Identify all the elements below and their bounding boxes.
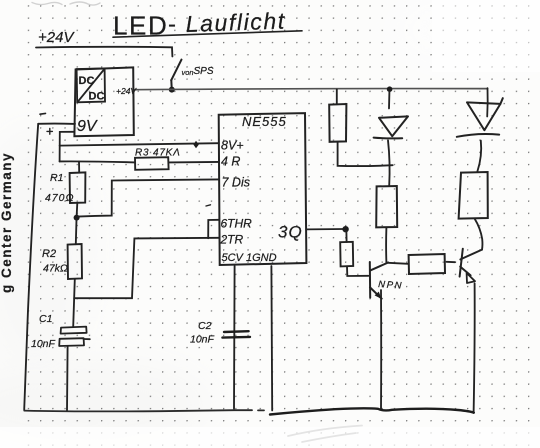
- label R2: [42, 248, 56, 260]
- ground rail wire (left half): [24, 410, 264, 411]
- resistor R2 body: [68, 244, 82, 279]
- LED D1 cathode bar: [374, 137, 403, 140]
- label DC (top): [79, 75, 95, 87]
- svg-text:C2: C2: [198, 320, 212, 332]
- wire: tap to pins 2/6 (THR/TR net): [74, 238, 219, 298]
- label 10nF (C1): [31, 338, 56, 350]
- wire: pin 3 Q output: [306, 228, 344, 230]
- pin 5 / pin 1 label 5CV 1GND: [222, 252, 277, 264]
- wire: junction B to R2: [75, 219, 78, 244]
- svg-text:470Ω: 470Ω: [45, 192, 75, 204]
- wire: 9V rail to pin 8: [60, 143, 219, 145]
- svg-text:6THR: 6THR: [221, 217, 253, 231]
- svg-text:DC: DC: [89, 91, 105, 103]
- svg-text:4 R: 4 R: [221, 155, 240, 169]
- svg-text:10nF: 10nF: [31, 338, 56, 350]
- wire: D1 to R7: [388, 140, 390, 186]
- svg-text:von: von: [182, 68, 194, 77]
- wire: left bus to DC/DC input: [38, 123, 75, 125]
- wire: pin 1 GND down to ground rail: [270, 266, 273, 410]
- minus terminal mark: [40, 112, 46, 115]
- svg-text:+24V: +24V: [38, 29, 75, 46]
- LED D2 triangle: [467, 98, 503, 130]
- svg-text:R1: R1: [50, 172, 63, 184]
- LED D1 triangle: [379, 116, 408, 136]
- label NE555: [242, 114, 287, 129]
- svg-text:47kΩ: 47kΩ: [43, 263, 68, 275]
- wire: rail right corner drop to LED D2: [486, 88, 488, 116]
- capacitor C1 top plate: [61, 327, 87, 334]
- wire: R1 to junction B: [76, 203, 79, 215]
- junction diamond on pin-8 rail: [193, 141, 198, 148]
- svg-text:g Center Germany: g Center Germany: [0, 152, 14, 293]
- wire: node D down to LED D1: [388, 92, 390, 109]
- Q1 emitter arrowhead: [374, 291, 382, 299]
- label DC (bottom): [89, 91, 105, 103]
- wire: left bus down page: [24, 124, 38, 410]
- svg-text:7 Dis: 7 Dis: [222, 176, 250, 190]
- wire: junction B to pin 7 (Dis): [78, 179, 219, 216]
- wire: C1 to ground rail: [66, 346, 69, 411]
- label C2: [198, 320, 212, 332]
- LED D2 cathode bar: [457, 134, 499, 137]
- svg-text:R3 47KΛ: R3 47KΛ: [135, 148, 181, 159]
- resistor R1 body: [70, 172, 86, 203]
- wire: pin 5 CV down to C2 and ground: [233, 266, 236, 409]
- junction node A (switch to +24V rail): [169, 87, 175, 93]
- junction node C (Q output): [342, 226, 348, 232]
- wire: Q1 emitter down to ground rail: [380, 290, 382, 409]
- DC/DC inner symbol box with diagonal: [77, 68, 105, 102]
- faint smudge below rail: [288, 426, 362, 443]
- switch S1 (von SPS): [171, 60, 181, 89]
- wire: Q1 collector up to R7: [386, 228, 388, 263]
- resistor R5 body (coupling resistor): [409, 254, 445, 274]
- title text "LED - Lauflicht": [113, 8, 286, 41]
- pin 3 label 3Q: [278, 223, 303, 242]
- label R3 47KΩ: [135, 148, 181, 159]
- title underline: [113, 31, 302, 37]
- DC/DC converter U2 box: [74, 67, 133, 136]
- label von SPS: [182, 66, 214, 77]
- Q2 emitter arrowhead: [467, 273, 475, 283]
- svg-text:SPS: SPS: [194, 66, 214, 77]
- wire: +24V rail across top: [134, 89, 487, 90]
- label 10nF (C2): [190, 334, 215, 346]
- wire: Q1 collector to R5: [388, 263, 408, 264]
- svg-text:9V: 9V: [77, 118, 98, 135]
- wire: +24V underline feed to switch: [36, 47, 172, 57]
- capacitor C1 bottom plate: [59, 338, 90, 346]
- label 9V: [77, 118, 98, 135]
- label NPN: [378, 279, 404, 292]
- pin 7 label Dis: [222, 176, 250, 190]
- svg-text:3Q: 3Q: [278, 223, 303, 242]
- svg-text:+24V: +24V: [116, 86, 137, 96]
- op IC U1 NE555 box: [219, 113, 307, 265]
- junction node D (rail to LED D1): [387, 86, 393, 92]
- wire: 9V rail to R3 (pin 4 net): [60, 161, 135, 162]
- svg-text:-: -: [168, 11, 176, 38]
- svg-text:8V+: 8V+: [221, 139, 244, 153]
- wire: 9V output corner from DC/DC: [60, 132, 74, 162]
- page-edge print: vertical "g Center Germany": [0, 152, 14, 293]
- resistor R3 body: [135, 157, 169, 170]
- svg-text:C1: C1: [39, 313, 52, 325]
- resistor R7 body (LED D1 series): [376, 186, 397, 227]
- svg-text:10nF: 10nF: [190, 334, 215, 346]
- wire: pin-4 rail tap down to R1: [78, 162, 80, 173]
- wire: D2 to R8: [477, 141, 481, 172]
- svg-text:DC: DC: [79, 75, 95, 87]
- pin 6 label THR: [221, 217, 253, 231]
- pin 4 label R: [221, 155, 240, 169]
- label 47kΩ: [43, 263, 68, 275]
- wire: R6 down and across to D1 cathode net: [338, 142, 393, 166]
- junction node B (R1/R2/pin7): [74, 215, 80, 221]
- wire: R4 to Q1 base: [347, 266, 368, 276]
- label 470Ω: [45, 192, 75, 204]
- faint pencil scribble top edge: [32, 2, 100, 5]
- plus terminal mark: [47, 128, 52, 134]
- capacitor C2 plates: [222, 331, 250, 337]
- svg-text:R2: R2: [42, 248, 56, 260]
- wire: R8 down to Q2 collector: [475, 219, 483, 250]
- transistor Q2: [460, 249, 482, 277]
- wire: rail drop to resistor R6: [336, 90, 338, 105]
- ground rail wire (right half): [270, 408, 474, 414]
- resistor R6 body (parallel to LED D1): [329, 104, 346, 142]
- wire: R5 to Q2 base: [447, 261, 456, 263]
- label +24V (supply): [38, 29, 75, 46]
- svg-text:2TR: 2TR: [220, 233, 244, 247]
- svg-text:5CV 1GND: 5CV 1GND: [222, 252, 277, 264]
- stray pen mark left of IC: [206, 205, 211, 206]
- label R1: [50, 172, 63, 184]
- wire: R2 down to C1: [73, 279, 75, 327]
- transistor Q1 NPN: [370, 262, 388, 298]
- pin 8 label V+: [221, 139, 244, 153]
- bracket wire joining pin 6 to pin 2: [208, 220, 219, 238]
- wire: Q2 emitter down to ground rail: [474, 283, 475, 413]
- resistor R4 body (base resistor Q1): [340, 242, 353, 267]
- pin 2 label TR: [220, 233, 244, 247]
- label C1: [39, 313, 52, 325]
- wire: R3 to pin 4: [169, 161, 219, 164]
- resistor R8 body (LED D2 series): [459, 172, 488, 219]
- label +24V output pin: [116, 86, 137, 96]
- svg-text:NE555: NE555: [242, 114, 287, 129]
- wire: node C down to base resistor R4: [345, 232, 347, 242]
